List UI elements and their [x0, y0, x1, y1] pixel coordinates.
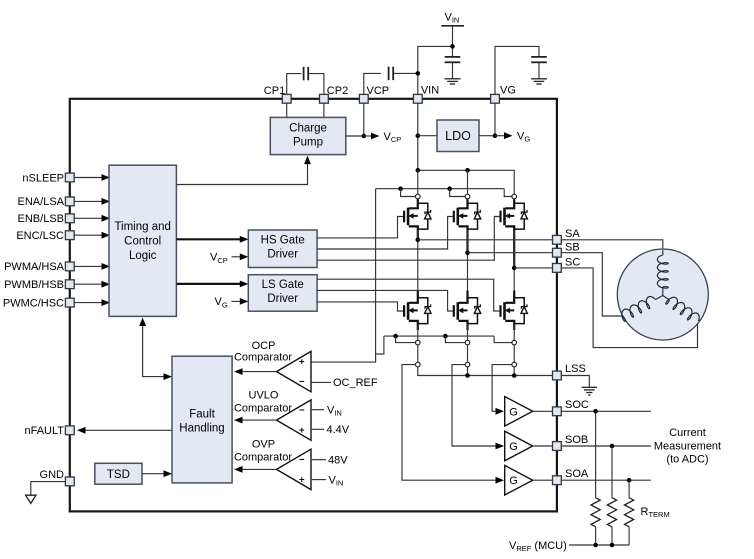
svg-text:VIN: VIN: [421, 85, 439, 97]
transistor Q2 (high-side B): [454, 199, 481, 253]
wire: ENA/LSA to logic: [74, 200, 101, 202]
svg-text:LS Gate: LS Gate: [262, 279, 304, 291]
wire: VIN supply to node: [452, 26, 454, 56]
comparator UVLO: [277, 400, 312, 440]
node: SA junction: [416, 238, 421, 243]
wire: switch node A vertical: [417, 230, 419, 303]
svg-text:Measurement: Measurement: [654, 441, 721, 453]
svg-text:Timing and: Timing and: [114, 221, 170, 233]
arrow: into G2: [496, 443, 505, 450]
ground (GND pin, open triangle): [26, 495, 36, 503]
wire: LS driver output 2 to Q5 gate: [317, 290, 453, 311]
wire: HS driver output B to Q2 gate: [317, 217, 453, 250]
transistor Q4 (low-side A): [404, 291, 431, 331]
wire: SOC line: [561, 410, 651, 412]
wire: R1 bottom: [595, 527, 597, 545]
node: LDO input tap: [416, 133, 421, 138]
wire: VCP pin to C3: [364, 73, 381, 94]
wire: HS driver output A to Q1 gate: [317, 217, 403, 238]
wire: nSLEEP to logic: [74, 177, 101, 179]
svg-text:G: G: [509, 475, 518, 487]
svg-text:SC: SC: [565, 256, 580, 268]
pin SB: [553, 248, 562, 257]
wire: HS drain vertical A: [417, 170, 419, 203]
svg-text:Comparator: Comparator: [234, 403, 292, 415]
svg-text:LSS: LSS: [565, 363, 586, 375]
svg-text:(to ADC): (to ADC): [666, 454, 708, 466]
wire: SOA line: [561, 479, 651, 481]
svg-text:SOC: SOC: [565, 399, 589, 411]
capacitor C3 (VCP flying/bypass): [388, 67, 390, 80]
svg-text:OC_REF: OC_REF: [333, 377, 378, 389]
node: VREF R2: [610, 543, 615, 548]
terminal circle: HS B: [465, 194, 470, 199]
wire: GND pin to ground: [31, 482, 66, 496]
wire: logic to HS gate driver (bus): [176, 238, 240, 240]
ground (VIN bypass cap): [445, 78, 461, 80]
wire: OVP - input: [312, 459, 326, 461]
motor winding B (left): [622, 297, 656, 322]
svg-text:PWMA/HSA: PWMA/HSA: [4, 261, 65, 273]
wire: C2 to ground: [538, 62, 540, 79]
pin CP1: [282, 94, 291, 103]
svg-text:Control: Control: [124, 236, 161, 248]
wire: UVLO + input: [312, 428, 324, 430]
wire: VIN rail to HS drains: [418, 170, 514, 194]
svg-text:HS Gate: HS Gate: [261, 234, 305, 246]
wire: LSS pin to ground: [561, 376, 589, 387]
wire: logic to LS gate driver (bus): [176, 283, 240, 285]
wire: sense tap A to circle: [396, 336, 416, 343]
node: LSS rail B: [465, 373, 470, 378]
svg-text:CP2: CP2: [327, 85, 348, 97]
svg-text:Handling: Handling: [179, 423, 224, 435]
node: sense tap A: [393, 334, 398, 339]
svg-text:UVLO: UVLO: [249, 390, 279, 402]
node: VREF R1: [593, 543, 598, 548]
svg-text:nFAULT: nFAULT: [24, 425, 64, 437]
terminal circle: CSA tap B: [465, 362, 470, 367]
wire: CSA tap A to amp G3: [402, 365, 496, 481]
wire: C4 to CP2 pin: [308, 74, 324, 95]
pin PWMC/HSC: [65, 298, 74, 307]
wire: HS gate sense feeder: [376, 188, 505, 190]
wire: PWMA/HSA to logic: [74, 265, 101, 267]
capacitor C2 (VG bypass): [531, 56, 547, 58]
wire: TSD to fault handling: [142, 473, 164, 475]
wire: switch node C vertical: [513, 230, 515, 303]
wire: logic to fault handling: [143, 321, 164, 377]
svg-text:Logic: Logic: [129, 250, 157, 262]
pin CP2: [320, 94, 329, 103]
wire: R3 top: [628, 480, 630, 498]
wire: VIN pin down to LDO: [417, 103, 419, 170]
wire: SB line to pin: [468, 252, 553, 254]
resistor R2: [607, 498, 616, 527]
pin SOC: [553, 407, 562, 416]
svg-text:OCP: OCP: [252, 340, 276, 352]
VIN supply rail symbol: [441, 25, 464, 27]
svg-text:SB: SB: [565, 241, 580, 253]
arrow: into charge pump: [304, 156, 311, 165]
svg-text:OVP: OVP: [252, 438, 275, 450]
resistor R3: [625, 498, 634, 527]
wire: CP2 pin into Charge Pump: [323, 103, 325, 117]
svg-text:Current: Current: [669, 427, 706, 439]
wire: OCP sense vertical to comparator: [311, 189, 376, 362]
motor M1 (3-phase BLDC): [617, 249, 708, 340]
node: feeder tap A: [398, 186, 403, 191]
svg-text:ENA/LSA: ENA/LSA: [18, 196, 65, 208]
svg-text:+: +: [299, 474, 305, 485]
wire: VIN node to VIN pin: [418, 46, 453, 94]
arrow: into fault handling: [164, 373, 173, 380]
block: Timing and Control Logic U1: [109, 165, 176, 316]
node: SC junction: [512, 266, 517, 271]
svg-text:Driver: Driver: [267, 293, 298, 305]
wire: ENC/LSC to logic: [74, 234, 101, 236]
arrow: VCP output: [364, 135, 372, 137]
svg-text:Charge: Charge: [289, 123, 327, 135]
wire: LS driver output 3 to Q4 gate: [317, 302, 403, 311]
wire: OCP output to fault handling: [241, 371, 277, 373]
wire: SB to motor: [561, 253, 624, 316]
wire: OCP - input to OC_REF: [311, 381, 331, 383]
terminal circle: source sense C: [512, 340, 517, 345]
svg-text:G: G: [509, 441, 518, 453]
svg-text:−: −: [299, 377, 305, 388]
svg-text:4.4V: 4.4V: [327, 424, 350, 436]
wire: C3 to VIN line: [393, 72, 418, 74]
pin ENB/LSB: [65, 214, 74, 223]
pin VIN: [413, 94, 422, 103]
svg-text:ENB/LSB: ENB/LSB: [18, 213, 64, 225]
chip boundary (device outline): [70, 99, 557, 512]
terminal circle: HS A: [416, 194, 421, 199]
wire: OVP + input: [312, 479, 326, 481]
pin SA: [553, 235, 562, 244]
pin GND: [65, 477, 74, 486]
transistor Q1 (high-side A): [404, 199, 431, 240]
svg-text:VCP: VCP: [366, 85, 389, 97]
node: LSS rail C: [512, 373, 517, 378]
arrow: VG into LS driver: [232, 300, 242, 302]
svg-text:PWMC/HSC: PWMC/HSC: [3, 297, 64, 309]
capacitor C4 (charge pump flying cap): [303, 67, 305, 80]
node: VCP cap to VIN vertical: [416, 71, 421, 76]
wire: HS drain vertical B: [467, 170, 469, 203]
wire: SC line to pin: [514, 267, 552, 269]
svg-text:LDO: LDO: [445, 129, 471, 143]
block: HS Gate Driver: [248, 230, 317, 268]
wire: SA to motor: [561, 240, 663, 250]
transistor Q5 (low-side B): [454, 291, 481, 331]
pin nSLEEP: [65, 173, 74, 182]
wire: switch node B vertical: [467, 230, 469, 303]
transistor Q6 (low-side C): [501, 291, 528, 331]
node: SOA tap: [627, 478, 632, 483]
wire: PWMC/HSC to logic: [74, 302, 101, 304]
wire: CSA tap C to amp G1: [492, 365, 512, 412]
wire: PWMB/HSB to logic: [74, 283, 101, 285]
wire: HS driver output C to Q3 gate: [317, 217, 499, 261]
node: HS drain A: [416, 168, 421, 173]
svg-text:+: +: [299, 357, 305, 368]
wire: CP1 pin to C4: [287, 74, 302, 95]
terminal circle: source sense A: [416, 340, 421, 345]
block: LDO: [437, 120, 479, 152]
wire: R2 bottom: [611, 527, 613, 545]
wire: LDO output: [479, 135, 495, 137]
wire: sense tap C to circle: [494, 336, 512, 343]
wire: OVP output to fault handling: [241, 468, 277, 470]
wire: G2 output to pin: [533, 445, 553, 447]
wire: OCP sense feeder (row 1): [384, 335, 494, 337]
terminal circle: source sense B: [465, 340, 470, 345]
block: Fault Handling: [172, 356, 232, 483]
comparator OVP: [277, 449, 312, 489]
svg-text:PWMB/HSB: PWMB/HSB: [4, 279, 64, 291]
pin nFAULT: [65, 426, 74, 435]
wire: UVLO output to fault handling: [241, 419, 277, 421]
wire: VG pin down to LDO output node: [494, 103, 496, 136]
svg-text:GND: GND: [40, 469, 65, 481]
motor winding A (top): [657, 255, 668, 288]
svg-text:48V: 48V: [328, 455, 348, 467]
terminal circle: CSA tap A: [416, 362, 421, 367]
wire: VREF line: [569, 544, 629, 546]
motor star point: [662, 287, 664, 296]
pin PWMB/HSB: [65, 280, 74, 289]
svg-text:Comparator: Comparator: [234, 351, 292, 363]
node: SB junction: [465, 250, 470, 255]
wire: SOB line: [561, 445, 651, 447]
svg-text:nSLEEP: nSLEEP: [22, 172, 64, 184]
amp G2 (SOB current sense): [505, 431, 533, 461]
svg-text:VG: VG: [500, 85, 516, 97]
pin SC: [553, 264, 562, 273]
terminal circle: HS C: [512, 194, 517, 199]
wire: logic to charge pump: [176, 162, 307, 185]
wire: VCP pin down to VCP node: [363, 103, 365, 136]
wire: motor top stub: [662, 250, 664, 255]
ground (VG bypass cap): [531, 78, 547, 80]
wire: G3 output to pin: [533, 479, 553, 481]
wire: LS source vertical C: [513, 324, 515, 375]
pin ENA/LSA: [65, 197, 74, 206]
node: HS drain B: [465, 168, 470, 173]
svg-text:ENC/LSC: ENC/LSC: [16, 230, 64, 242]
svg-text:SOA: SOA: [565, 468, 589, 480]
node: feeder tap B: [447, 186, 452, 191]
wire: feeder tap B to gate node: [450, 189, 465, 197]
pin VCP: [359, 94, 368, 103]
svg-text:SOB: SOB: [565, 434, 588, 446]
terminal circle: CSA tap C: [512, 362, 517, 367]
arrow: into G1: [496, 408, 505, 415]
wire: ENB/LSB to logic: [74, 217, 101, 219]
node: sense tap B: [443, 334, 448, 339]
svg-text:CP1: CP1: [264, 85, 285, 97]
block: Charge Pump: [270, 117, 346, 154]
svg-text:−: −: [299, 454, 305, 465]
comparator OCP: [277, 351, 312, 391]
svg-text:Fault: Fault: [189, 409, 215, 421]
wire: sense feeder jog to vertical: [376, 336, 384, 354]
pin SOA: [553, 476, 562, 485]
resistor R1: [591, 498, 600, 527]
wire: sense tap B to circle: [445, 336, 465, 343]
wire: SC to motor: [561, 268, 697, 348]
wire: LS source vertical A: [418, 324, 553, 375]
wire: VG pin to C2: [495, 46, 539, 94]
node: SOC tap: [593, 409, 598, 414]
wire: feeder tap C to gate node: [504, 189, 512, 197]
wire: UVLO - input: [312, 409, 324, 411]
pin PWMA/HSA: [65, 262, 74, 271]
amp G1 (SOC current sense): [505, 397, 533, 427]
svg-text:SA: SA: [565, 228, 580, 240]
block: LS Gate Driver: [248, 275, 317, 312]
arrow: VG output: [495, 135, 504, 137]
wire: HS drain vertical C: [513, 194, 515, 203]
wire: LS driver output 1 to Q6 gate: [317, 279, 499, 311]
pin LSS: [553, 371, 562, 380]
svg-text:G: G: [509, 406, 518, 418]
arrow: VCP into HS driver: [232, 256, 242, 258]
wire: R3 bottom: [628, 527, 630, 545]
wire: LS source vertical B: [467, 324, 469, 375]
wire: CSA tap B to amp G2: [452, 365, 496, 446]
wire: feeder tap A to gate node: [401, 189, 416, 197]
transistor Q3 (high-side C): [501, 199, 528, 268]
arrow: into G3: [496, 477, 505, 484]
ground (LSS): [582, 386, 597, 388]
wire: LDO input: [418, 135, 437, 137]
pin VG: [491, 94, 500, 103]
wire: C1 to ground: [452, 62, 454, 79]
motor winding C (right): [666, 297, 699, 321]
pin ENC/LSC: [65, 231, 74, 240]
svg-text:Pump: Pump: [293, 137, 323, 149]
node: VG output: [493, 133, 498, 138]
arrow: into logic: [139, 318, 146, 327]
wire: fault handling to nFAULT pin: [84, 429, 173, 431]
wire: CP1 pin into Charge Pump: [286, 103, 288, 117]
wire: R2 top: [611, 446, 613, 498]
svg-text:Comparator: Comparator: [234, 451, 292, 463]
wire: G1 output to pin: [533, 410, 553, 412]
svg-text:+: +: [299, 425, 305, 436]
node: VCP output: [362, 134, 367, 139]
node: SOB tap: [610, 444, 615, 449]
svg-text:TSD: TSD: [107, 469, 130, 481]
amp G3 (SOA current sense): [505, 465, 533, 495]
capacitor C1 (VIN bypass): [445, 56, 461, 58]
svg-text:−: −: [299, 405, 305, 416]
wire: R1 top: [595, 411, 597, 497]
node: VIN supply junction: [450, 44, 455, 49]
pin SOB: [553, 442, 562, 451]
block: TSD: [95, 463, 142, 484]
svg-text:Driver: Driver: [267, 248, 298, 260]
wire: Charge Pump output to VCP node: [346, 135, 364, 137]
wire: SA line to pin: [418, 239, 553, 241]
